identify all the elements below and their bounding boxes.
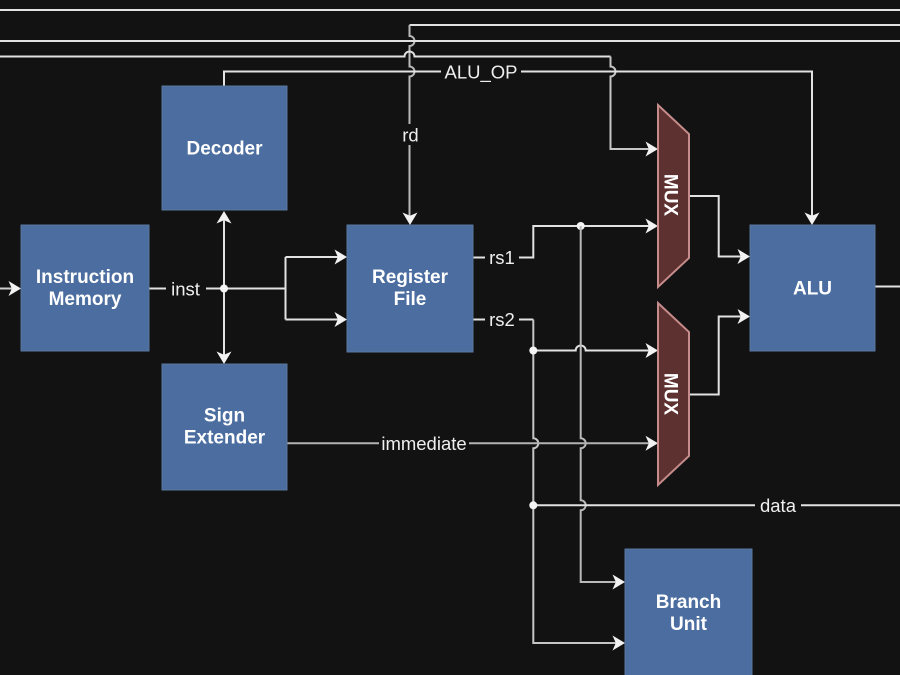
svg-text:ALU: ALU	[793, 279, 832, 300]
svg-text:data: data	[760, 495, 797, 516]
label rs1	[485, 247, 519, 268]
wire ALU_OP from Decoder top to ALU top	[224, 72, 812, 217]
node inst junction	[220, 285, 228, 293]
wire inst from Instruction Memory to junction and Register File bracket	[149, 221, 339, 356]
svg-text:rd: rd	[402, 125, 418, 146]
arrowhead into ALU input 2	[738, 309, 751, 324]
wire net1 top bus line	[0, 9, 900, 11]
node rs2 junction	[529, 347, 537, 355]
svg-text:MUX: MUX	[660, 174, 681, 217]
svg-text:ALU_OP: ALU_OP	[444, 62, 517, 84]
wire net4 MUX1 select arrowhead	[646, 142, 659, 157]
svg-text:Instruction: Instruction	[36, 267, 134, 288]
block Branch Unit	[625, 549, 752, 675]
arrowhead into MUX2 input 2	[646, 436, 659, 451]
wire rd (net from top, corner at x=409.5 down to Register File, hops at y=41 and y=71.5)	[410, 24, 900, 26]
svg-text:inst: inst	[171, 279, 200, 300]
mux MUX1	[658, 105, 689, 287]
arrowhead into Branch Unit input 2	[613, 636, 626, 651]
wire MUX1 output to ALU input 1	[689, 196, 742, 257]
wire net4 to MUX1 select (hop over rd at x=409.5, corner at x=610.5, hop over ALU_OP)	[0, 52, 611, 57]
label immediate	[379, 433, 469, 454]
label inst	[166, 278, 206, 300]
block Decoder	[162, 86, 287, 210]
arrowhead into Branch Unit input 1	[613, 575, 626, 590]
wire ALU output	[875, 286, 900, 288]
wire rs1 from Register File to MUX1 input 2	[473, 226, 650, 258]
block Instruction Memory	[21, 225, 149, 351]
wire input into Instruction Memory	[0, 288, 13, 290]
arrowhead into ALU input 1	[738, 249, 751, 264]
wire MUX2 output to ALU input 2	[689, 317, 742, 395]
label data	[755, 495, 801, 516]
node data junction	[529, 501, 537, 509]
svg-text:Memory: Memory	[49, 289, 122, 310]
wire immediate from Sign Extender to MUX2 input 2	[287, 442, 650, 444]
wire rs1 column down to Branch Unit input 1 (hops over immediate and data)	[581, 226, 617, 582]
label rs2	[485, 309, 519, 330]
arrowhead ALU_OP into ALU top	[805, 213, 820, 226]
svg-text:Sign: Sign	[204, 406, 245, 427]
block Sign Extender	[162, 364, 287, 490]
node rs1 junction	[577, 222, 585, 230]
arrowhead into MUX2 input 1	[646, 343, 659, 358]
label rd	[400, 124, 421, 146]
block ALU	[750, 225, 875, 351]
label ALU_OP	[441, 61, 521, 84]
svg-text:File: File	[394, 289, 427, 310]
arrowhead into Decoder bottom	[217, 211, 232, 224]
svg-text:MUX: MUX	[660, 373, 681, 416]
wire rs2 from Register File down the left column to Branch Unit input 2 (hops over immediate)	[473, 319, 533, 321]
svg-text:rs1: rs1	[489, 247, 515, 268]
arrowhead into Register File input 2	[335, 312, 348, 327]
arrowhead into Sign Extender top	[217, 352, 232, 365]
wire data from rs2 column to right edge	[533, 504, 900, 506]
svg-text:Unit: Unit	[670, 614, 708, 635]
svg-text:Extender: Extender	[184, 428, 266, 449]
wire rs2 branch to MUX2 input 1 (hops over rs1 vertical)	[533, 346, 649, 351]
wire net3 full-width line	[0, 40, 900, 42]
block Register File	[347, 225, 473, 352]
svg-text:immediate: immediate	[381, 433, 466, 454]
svg-text:Register: Register	[372, 267, 449, 288]
arrowhead rd into Register File top	[403, 213, 418, 226]
svg-text:Branch: Branch	[656, 592, 721, 613]
arrowhead into Instruction Memory	[9, 281, 22, 296]
mux MUX2	[658, 303, 689, 485]
svg-text:rs2: rs2	[489, 309, 515, 330]
arrowhead into Register File input 1	[335, 250, 348, 265]
arrowhead into MUX1 input 2	[646, 219, 659, 234]
svg-text:Decoder: Decoder	[186, 139, 263, 160]
